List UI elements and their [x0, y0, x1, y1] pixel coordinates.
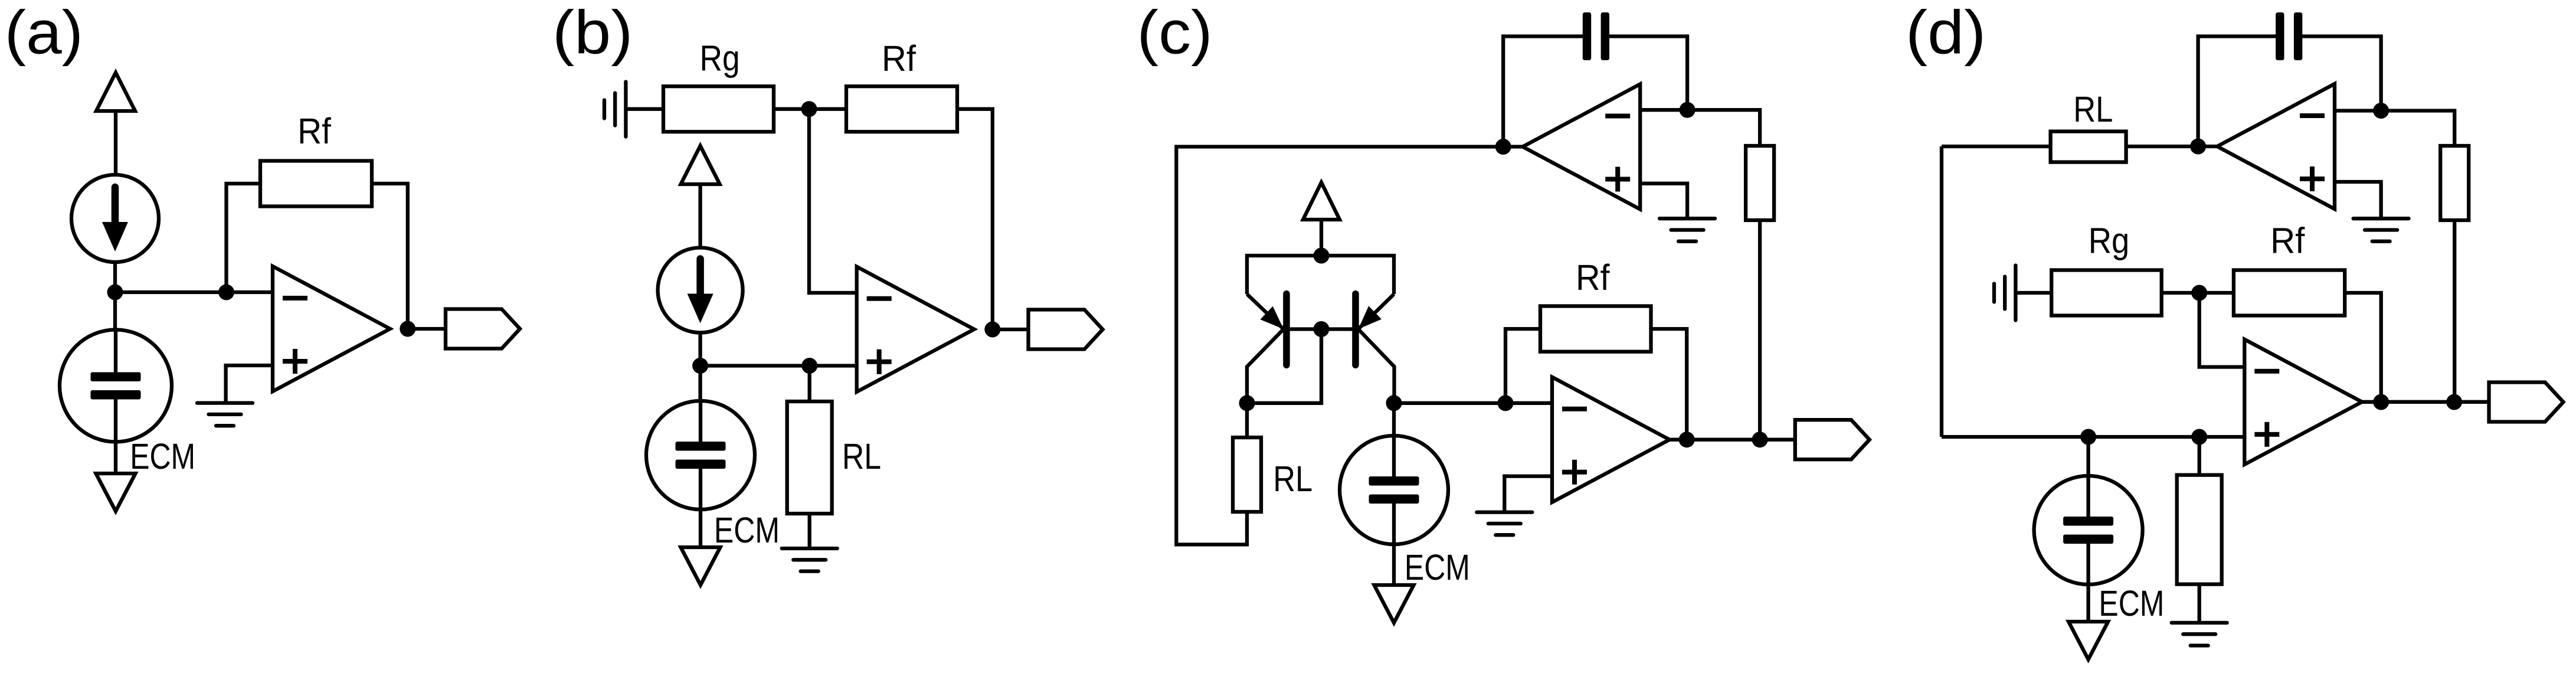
- svg-text:Rf: Rf: [297, 111, 332, 151]
- wire ground to Rg d: [2015, 291, 2051, 295]
- wire ground to Rg: [626, 107, 663, 111]
- output pin panel c: [1795, 420, 1870, 459]
- node supply emitter rail: [1314, 248, 1330, 264]
- wire cap right leg d: [2302, 37, 2381, 111]
- ground left panel b: [604, 82, 626, 137]
- ground below R2 panel d: [2172, 623, 2227, 646]
- capacitor C1 feedback: [1583, 12, 1609, 60]
- node collector Q1: [1239, 395, 1255, 411]
- op-amp U1 panel b: [857, 267, 974, 392]
- wire output to pin panel b: [993, 328, 1029, 331]
- node between Rg and Rf: [801, 101, 817, 117]
- ground top op-amp panel d: [2354, 218, 2409, 241]
- wire ECM top panel c: [1392, 403, 1396, 436]
- wire ECM to ground arrow panel b: [699, 509, 702, 547]
- capacitor C1 feedback d: [2276, 12, 2302, 60]
- resistor Rf panel c: [1540, 306, 1651, 352]
- ground bottom op-amp panel c: [1477, 512, 1532, 535]
- wire current source to node panel b: [698, 333, 702, 401]
- svg-text:ECM: ECM: [130, 436, 195, 476]
- resistor Rf panel a: [260, 161, 372, 207]
- output pin panel d: [2489, 383, 2564, 422]
- resistor RL panel d: [2051, 132, 2126, 162]
- emitter arrow Q2: [1359, 306, 1382, 329]
- ECM microphone panel c: [1340, 436, 1448, 544]
- resistor Rg panel b: [663, 86, 774, 132]
- wire node down to inverting input: [809, 109, 857, 293]
- wire node to non-inverting input: [701, 364, 857, 367]
- wire ECM to arrow panel c: [1392, 544, 1396, 585]
- svg-text:RL: RL: [2073, 89, 2113, 129]
- svg-text:(b): (b): [552, 0, 633, 67]
- resistor Rf panel b: [846, 86, 957, 132]
- wire node to vertical resistor R1 d: [2381, 111, 2455, 146]
- wire base tie to collector Q1: [1247, 329, 1321, 403]
- wire supply to current source panel b: [698, 184, 702, 248]
- wire RL to ground: [808, 514, 811, 548]
- wire ECM top d: [2086, 437, 2090, 476]
- node output 1 panel d: [2373, 394, 2389, 410]
- ground left panel d: [1994, 266, 2015, 321]
- node inverting input top d: [2373, 103, 2389, 119]
- node collector Q2: [1386, 395, 1402, 411]
- wire cap feedback left leg d: [2198, 37, 2276, 147]
- ground below RL panel b: [782, 548, 837, 571]
- wire Rg to Rf d: [2162, 291, 2234, 295]
- node inverting input top: [1680, 102, 1695, 118]
- wire ECM to arrow d: [2086, 584, 2090, 622]
- output pin panel a: [446, 309, 520, 349]
- op-amp U1 top panel c: [1523, 84, 1640, 210]
- svg-text:Rf: Rf: [2270, 221, 2305, 261]
- power supply arrow panel c: [1303, 182, 1340, 220]
- node top op-amp output d: [2190, 139, 2206, 155]
- node output panel a: [400, 321, 415, 337]
- base bar Q2: [1352, 290, 1359, 368]
- resistor R1 vertical panel c: [1746, 146, 1774, 220]
- svg-text:ECM: ECM: [2099, 583, 2164, 623]
- svg-text:ECM: ECM: [1405, 547, 1470, 587]
- negative supply arrow panel b: [681, 547, 721, 585]
- current source I1: [71, 175, 159, 262]
- wire apex to output node top op-amp: [1503, 145, 1523, 148]
- wire feedback Rf left leg: [227, 184, 261, 292]
- collector lead Q2: [1359, 329, 1395, 403]
- op-amp U1 top panel d: [2217, 84, 2335, 209]
- node top op-amp output: [1495, 139, 1511, 155]
- wire ECM to ground arrow: [114, 442, 117, 474]
- power supply arrow panel b: [681, 146, 720, 184]
- wire output rail panel d: [2362, 400, 2489, 404]
- node base junction: [1314, 321, 1330, 337]
- node output 2 panel c: [1752, 432, 1768, 447]
- power supply arrow panel a: [96, 73, 135, 111]
- current source I1 panel b: [658, 248, 743, 333]
- wire node down to inverting input d: [2199, 293, 2245, 367]
- wire collector Q2 to inverting input: [1394, 401, 1552, 405]
- wire RL to top op-amp output node: [2126, 145, 2198, 148]
- svg-text:(c): (c): [1137, 0, 1213, 67]
- node RL tap: [801, 358, 817, 374]
- ground top op-amp panel c: [1659, 218, 1715, 241]
- node output 2 panel d: [2446, 394, 2462, 410]
- svg-text:Rf: Rf: [1576, 257, 1611, 298]
- ECM microphone panel d: [2034, 476, 2143, 584]
- negative supply arrow panel d: [2068, 622, 2108, 659]
- wire node A to op-amp inverting input: [115, 290, 273, 294]
- svg-text:Rg: Rg: [2089, 221, 2130, 261]
- emitter lead Q1: [1247, 294, 1284, 329]
- bottom rail to non-inverting input d: [1942, 435, 2244, 439]
- emitter arrow Q1: [1260, 306, 1284, 329]
- node Rf tap panel c: [1498, 395, 1514, 411]
- op-amp U1 panel a: [273, 266, 390, 391]
- resistor Rf panel d: [2234, 270, 2345, 316]
- svg-text:Rf: Rf: [882, 38, 917, 79]
- wire inverting input top op-amp d: [2335, 109, 2381, 112]
- svg-text:(a): (a): [5, 0, 83, 67]
- wire rail to RL: [1942, 145, 2051, 148]
- wire node to R2 d: [2198, 437, 2201, 475]
- node B feedback tap: [218, 285, 234, 300]
- wire inverting input top op-amp: [1640, 108, 1687, 112]
- negative supply arrow panel a: [96, 473, 136, 511]
- wire cap right leg: [1609, 37, 1687, 110]
- wire non-inverting input top op-amp to ground: [1640, 184, 1687, 218]
- wire node down to RL: [808, 366, 811, 402]
- resistor RL panel c: [1233, 437, 1261, 512]
- node R2 tap d: [2191, 429, 2207, 445]
- wire supply to current source I1: [114, 112, 117, 175]
- wire cap feedback left leg: [1503, 37, 1583, 147]
- wire top op-amp output left rail loop: [1176, 147, 1503, 545]
- resistor Rg panel d: [2051, 270, 2162, 316]
- left rail panel d: [1940, 146, 1943, 437]
- wire apex to node top op-amp d: [2198, 145, 2218, 148]
- wire Rf right leg down d: [2345, 293, 2381, 402]
- wire Rf to output node: [957, 109, 993, 329]
- svg-text:(d): (d): [1906, 0, 1986, 67]
- wire non-inverting top op-amp to ground d: [2335, 182, 2381, 218]
- base wire Q1-Q2: [1290, 327, 1353, 331]
- node output panel b: [984, 322, 1000, 338]
- wire Rf right leg panel c: [1651, 329, 1687, 440]
- svg-text:Rg: Rg: [700, 38, 740, 79]
- wire R1 down to output junction d: [2453, 220, 2456, 402]
- wire output to pin panel a: [408, 327, 446, 331]
- node A junction: [107, 285, 123, 300]
- node current source / ECM: [692, 358, 708, 374]
- resistor R1 vertical panel d: [2440, 146, 2469, 220]
- op-amp U2 bottom panel d: [2244, 339, 2362, 465]
- wire node to vertical resistor R1: [1687, 110, 1760, 146]
- output pin panel b: [1029, 310, 1103, 349]
- svg-text:RL: RL: [1273, 459, 1312, 499]
- node between Rg and Rf d: [2191, 285, 2207, 301]
- wire output rail panel c: [1670, 438, 1795, 442]
- wire supply to emitter rail: [1320, 220, 1323, 256]
- wire non-inverting to ground panel c: [1504, 476, 1552, 512]
- node output 1 panel c: [1679, 432, 1695, 447]
- ground op-amp panel a: [197, 403, 253, 426]
- wire Rf left leg panel c: [1505, 329, 1540, 403]
- negative supply arrow panel c: [1374, 585, 1414, 623]
- svg-text:RL: RL: [842, 436, 881, 476]
- resistor R2 vertical panel d: [2177, 475, 2222, 584]
- base bar Q1: [1283, 290, 1290, 368]
- wire current source to ECM, node A: [113, 262, 117, 330]
- emitter lead Q2: [1359, 294, 1395, 329]
- wire Rg to Rf: [774, 107, 846, 111]
- emitter rail current mirror: [1247, 256, 1394, 294]
- op-amp U2 bottom panel c: [1552, 377, 1670, 502]
- ECM microphone panel b: [646, 401, 755, 509]
- svg-text:ECM: ECM: [714, 510, 780, 550]
- ECM microphone panel a: [60, 330, 172, 442]
- wire Rf to output node: [372, 184, 408, 329]
- collector lead Q1 to RL: [1247, 329, 1284, 438]
- node ECM tap d: [2080, 429, 2096, 445]
- resistor RL panel b: [787, 401, 832, 514]
- wire non-inverting input to ground: [226, 365, 273, 403]
- wire R2 to ground d: [2198, 584, 2201, 623]
- wire R1 down to output junction: [1758, 220, 1762, 440]
